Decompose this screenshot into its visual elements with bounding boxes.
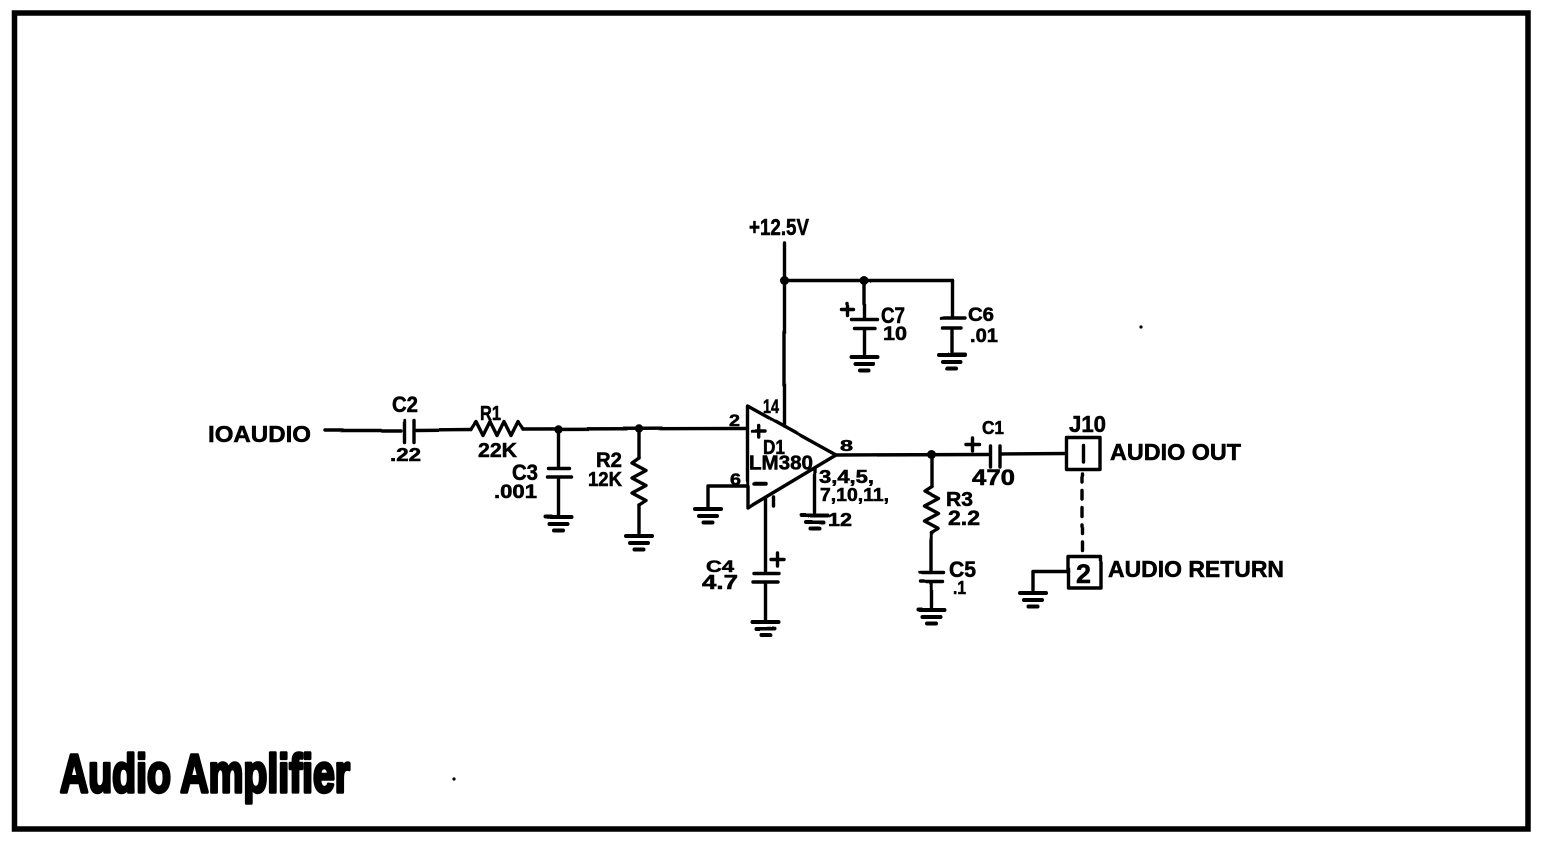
svg-text:+12.5V: +12.5V (749, 214, 810, 240)
svg-text:.01: .01 (970, 326, 998, 347)
svg-text:2.2: 2.2 (948, 507, 980, 530)
svg-text:4.7: 4.7 (702, 572, 738, 594)
svg-text:12K: 12K (588, 469, 623, 491)
svg-text:3,4,5,: 3,4,5, (819, 467, 874, 487)
svg-text:Audio Amplifier: Audio Amplifier (60, 744, 350, 804)
svg-text:12: 12 (828, 510, 852, 530)
svg-text:22K: 22K (478, 440, 518, 462)
svg-text:C1: C1 (982, 418, 1004, 438)
svg-text:470: 470 (972, 465, 1015, 490)
svg-text:2: 2 (729, 411, 740, 430)
svg-text:.001: .001 (494, 482, 537, 503)
svg-text:C2: C2 (392, 392, 418, 417)
svg-text:2: 2 (1076, 559, 1091, 589)
svg-text:6: 6 (730, 470, 741, 489)
svg-text:AUDIO RETURN: AUDIO RETURN (1108, 556, 1284, 582)
svg-text:8: 8 (840, 438, 853, 455)
svg-text:J10: J10 (1069, 411, 1106, 437)
svg-text:.1: .1 (953, 578, 966, 598)
svg-text:R1: R1 (480, 403, 501, 425)
svg-text:C6: C6 (968, 305, 994, 326)
svg-text:7,10,11,: 7,10,11, (820, 485, 889, 505)
svg-text:LM380: LM380 (749, 453, 813, 475)
svg-text:10: 10 (883, 324, 907, 345)
svg-text:AUDIO OUT: AUDIO OUT (1110, 439, 1241, 465)
svg-text:.22: .22 (390, 445, 421, 465)
svg-text:IOAUDIO: IOAUDIO (208, 421, 311, 447)
svg-text:14: 14 (763, 397, 779, 418)
